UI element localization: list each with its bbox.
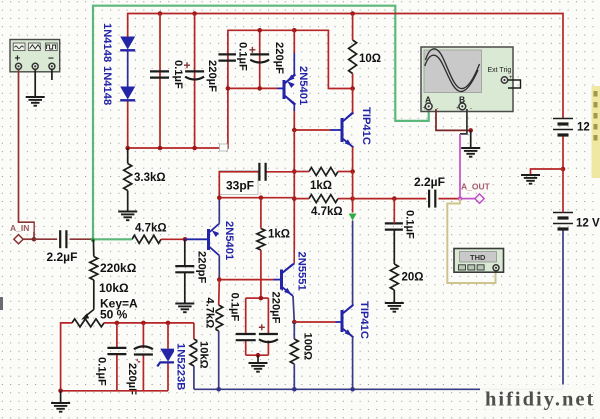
wire A_IN to cap xyxy=(34,238,57,240)
resistor 3.3kohm xyxy=(124,164,132,191)
svg-text:50 %: 50 % xyxy=(100,308,128,322)
THD terminal xyxy=(493,265,499,271)
resistor 4.7kohm (horiz) xyxy=(309,195,338,203)
svg-text:4.7kΩ: 4.7kΩ xyxy=(311,206,343,218)
label 12 (V1) xyxy=(576,120,590,132)
label 10kohm bottom xyxy=(198,339,210,372)
label 100ohm xyxy=(302,331,314,365)
wire 33pF net xyxy=(219,172,259,198)
label 1N5223B xyxy=(174,341,187,388)
svg-text:TIP41C: TIP41C xyxy=(360,107,372,145)
label 2.2uF input xyxy=(46,251,79,263)
junction scope ground xyxy=(468,128,473,133)
scope trace 1 xyxy=(426,49,480,89)
label TIP41C Q4 xyxy=(358,299,371,341)
wire node rail y148 xyxy=(128,88,228,148)
wire Q5 emitter to Q4 base xyxy=(294,321,335,323)
junction emitter drop xyxy=(292,28,297,33)
junction 0.1uF bottom xyxy=(158,146,163,151)
ground under 220pF xyxy=(175,303,194,305)
wire Q2 emitter up xyxy=(218,198,220,224)
label 220kohm xyxy=(99,261,140,274)
label 0.1uF bl xyxy=(95,355,108,384)
label 220pF xyxy=(196,249,208,289)
junction supply mid xyxy=(561,167,566,172)
junction cap box ground tap xyxy=(256,353,261,358)
battery V2 12V xyxy=(553,212,573,214)
wire output node down xyxy=(352,199,354,213)
label A_OUT xyxy=(461,182,489,191)
wire cap to green node xyxy=(70,238,94,240)
svg-text:1N5223B: 1N5223B xyxy=(175,343,187,390)
label 1N4148 (D1) xyxy=(101,21,114,62)
oscilloscope screen xyxy=(424,50,482,93)
wire Q3 emitter down xyxy=(352,147,354,172)
wire scope B down xyxy=(460,109,467,134)
junction diode chain xyxy=(125,146,130,151)
label 50 % xyxy=(99,310,129,321)
junction Q1 coll / Q3 base xyxy=(292,128,297,133)
junction caps bottom left xyxy=(226,86,231,91)
capacitor C 0.1uF top-left xyxy=(150,70,169,72)
wire Q2 collector down xyxy=(218,256,220,280)
polarity + of 220uF q1 xyxy=(249,49,255,51)
wire Q3 base wire xyxy=(294,129,330,131)
wire 10ohm leads xyxy=(352,14,354,41)
label 0.1uF q1 xyxy=(236,40,249,69)
junction 220uF bottom xyxy=(192,146,197,151)
wire base rail y88 xyxy=(228,87,277,89)
junction rail/4.7k xyxy=(216,387,221,392)
node A_IN diamond xyxy=(14,235,23,244)
label 4.7kohm bottom xyxy=(203,296,215,331)
junction Q2in base node xyxy=(183,237,188,242)
svg-text:hifidiy.net: hifidiy.net xyxy=(485,389,595,411)
wire A_IN stub xyxy=(22,238,34,240)
capacitor C 33pF xyxy=(258,163,260,181)
capacitor C 2.2uF output xyxy=(428,190,430,208)
wire emitter decoupling rail xyxy=(228,30,353,88)
svg-text:4.7kΩ: 4.7kΩ xyxy=(203,298,215,329)
XFG button sine xyxy=(13,43,25,51)
label 1kohm vert xyxy=(268,228,293,239)
junction col/4.7k xyxy=(292,196,297,201)
wire Q5 emitter down xyxy=(293,296,294,322)
wire bottom negative rail xyxy=(194,388,563,390)
junction Q2 coll node xyxy=(217,277,222,282)
junction col/1k xyxy=(292,169,297,174)
label 4.7kohm horiz xyxy=(310,206,345,217)
wire 220uF bm branch xyxy=(267,298,269,334)
junction rail/220uF xyxy=(192,11,197,16)
pot wiper arrow xyxy=(85,310,94,317)
wire green net top/left of schematic border xyxy=(93,6,429,240)
svg-text:2N5551: 2N5551 xyxy=(296,252,308,291)
wire Q3 collector up xyxy=(352,89,354,113)
net label box small xyxy=(220,144,228,151)
junction 10ohm bottom xyxy=(350,86,355,91)
svg-text:220pF: 220pF xyxy=(196,251,208,283)
svg-text:+: + xyxy=(509,75,513,81)
label 220uF bl xyxy=(126,361,138,398)
ground under 20ohm xyxy=(385,302,404,304)
junction zobel node xyxy=(392,196,397,201)
diode zener 1N5223B xyxy=(160,349,176,362)
svg-text:10Ω: 10Ω xyxy=(359,53,381,65)
XFG terminal - xyxy=(49,63,55,69)
watermark hifidiy.net xyxy=(480,385,593,410)
junction rail/100ohm xyxy=(292,387,297,392)
label 2N5401 Q1 xyxy=(297,64,310,111)
wire output node east xyxy=(353,198,427,200)
label 0.1uF xyxy=(172,58,185,87)
svg-text:0.1µF: 0.1µF xyxy=(172,60,184,89)
label 220uF bm xyxy=(270,290,282,330)
wire 4.7k bottom leads xyxy=(218,280,221,305)
label 10ohm xyxy=(358,51,382,64)
label 2N5401 Q2 xyxy=(223,219,236,266)
wire Q4 emitter down xyxy=(352,337,354,389)
scope terminal Ext xyxy=(501,77,507,83)
ground under scope xyxy=(461,147,480,149)
svg-text:+: + xyxy=(423,106,427,112)
diode D2 1N4148 xyxy=(120,87,135,100)
capacitor C 220uF bottom-mid electrolytic xyxy=(259,333,278,335)
svg-text:3.3kΩ: 3.3kΩ xyxy=(134,172,166,184)
wire 0.1uF bl branch xyxy=(116,323,118,348)
wire mid ground branch xyxy=(531,169,564,175)
label 2N5551 Q5 xyxy=(295,250,308,296)
junction rail/220uF bl xyxy=(141,321,146,326)
svg-text:2N5401: 2N5401 xyxy=(223,221,235,260)
wire XFG + to A_IN xyxy=(19,70,35,240)
label 12 V (V2) xyxy=(575,216,599,228)
svg-text:1N4148: 1N4148 xyxy=(101,66,113,105)
svg-text:4.7kΩ: 4.7kΩ xyxy=(135,223,167,235)
battery V1 12V xyxy=(553,118,573,120)
label 33pF xyxy=(219,171,258,195)
wire B to A_OUT magenta xyxy=(459,134,461,199)
svg-text:0.1µF: 0.1µF xyxy=(229,293,241,322)
junction bl rail left xyxy=(58,389,63,394)
instrument function generator XFG box xyxy=(10,40,60,72)
transistor Q3 TIP41C (NPN) top xyxy=(341,118,344,142)
wire 100ohm leads xyxy=(293,322,295,339)
diode D1 1N4148 xyxy=(120,37,135,50)
wire Q2 coll to Q5 base xyxy=(219,279,273,281)
instrument distortion analyzer THD box xyxy=(454,249,504,273)
wire cap out to A_OUT node xyxy=(438,198,460,200)
label 0.1uF zobel xyxy=(403,208,416,237)
wire +supply rail from diodes to battery xyxy=(128,14,563,119)
svg-text:2.2µF: 2.2µF xyxy=(47,250,78,264)
label 10kohm pot xyxy=(98,281,131,294)
svg-text:12 V: 12 V xyxy=(576,218,600,230)
XFG terminal common xyxy=(32,63,38,69)
resistor 1kohm vertical xyxy=(257,229,265,251)
ground bottom-mid xyxy=(249,362,268,364)
wire 1k vert leads xyxy=(260,198,262,229)
transistor Q4 TIP41C (NPN) bottom xyxy=(341,310,344,332)
resistor 1kohm (horiz) xyxy=(309,168,338,176)
junction rail/0.1uF bl xyxy=(115,321,120,326)
wire cap box feed xyxy=(246,297,261,299)
wire diode interconnect xyxy=(127,52,129,87)
junction rail/zener xyxy=(166,321,171,326)
capacitor C 220uF top-left electrolytic xyxy=(185,70,204,72)
wire 1k leads xyxy=(294,171,309,173)
wire A_OUT to THD (tan) xyxy=(447,199,495,283)
wire Q3 emitter to output xyxy=(352,172,354,199)
svg-text:220µF: 220µF xyxy=(270,292,282,324)
wire 220uF cap branch xyxy=(194,14,196,149)
svg-text:Ext Trig: Ext Trig xyxy=(488,67,512,74)
THD display xyxy=(460,252,497,263)
svg-text:2.2µF: 2.2µF xyxy=(414,175,445,189)
svg-text:1kΩ: 1kΩ xyxy=(310,180,332,192)
XFG button square xyxy=(45,43,57,51)
label TIP41C Q3 xyxy=(360,105,373,147)
polarity + of 220uF bl xyxy=(134,361,140,363)
resistor 220kohm xyxy=(90,257,98,281)
svg-text:TIP41C: TIP41C xyxy=(358,301,370,339)
wire scope A- to junction xyxy=(436,109,471,130)
svg-text:33pF: 33pF xyxy=(226,179,254,193)
junction green input node xyxy=(91,238,96,243)
junction rail/0.1uF xyxy=(158,11,163,16)
svg-text:-: - xyxy=(470,106,472,112)
wire output to Q4 collector xyxy=(352,221,354,307)
wire 220uF branch q1 xyxy=(259,30,261,88)
capacitor C 0.1uF bottom-left xyxy=(107,347,126,349)
capacitor C 220uF bottom-left electrolytic xyxy=(134,346,153,349)
junction caps bottom right xyxy=(257,86,262,91)
junction A_OUT node xyxy=(458,196,463,201)
svg-text:0.1µF: 0.1µF xyxy=(237,42,249,71)
transistor Q5 2N5551 (NPN) xyxy=(280,270,283,291)
THD buttons xyxy=(459,265,466,270)
scope ext trig pins xyxy=(508,80,521,88)
wire 4.7k leads xyxy=(294,198,309,200)
resistor 20ohm xyxy=(390,264,398,290)
svg-text:0.1µF: 0.1µF xyxy=(403,210,415,239)
svg-text:A_OUT: A_OUT xyxy=(461,182,491,192)
label A_IN xyxy=(10,223,34,232)
resistor 100ohm xyxy=(290,339,298,364)
svg-text:220kΩ: 220kΩ xyxy=(100,261,137,275)
scope terminal A xyxy=(425,103,432,110)
wire zener leads xyxy=(167,323,169,349)
wire XFG minus stub xyxy=(51,70,53,81)
label 4.7kohm input xyxy=(134,222,168,233)
capacitor C 220pF xyxy=(175,265,194,267)
svg-text:20Ω: 20Ω xyxy=(402,272,424,284)
resistor 10kohm bottom xyxy=(190,339,198,366)
svg-text:A_IN: A_IN xyxy=(10,223,29,233)
resistor 4.7kohm bottom xyxy=(215,305,223,331)
wire ground stem bm xyxy=(257,355,259,362)
junction rail/10ohm xyxy=(350,11,355,16)
probe arrow green xyxy=(349,214,357,221)
wire XFG common to ground xyxy=(34,70,36,97)
svg-text:12: 12 xyxy=(577,122,590,134)
transistor Q2 2N5401 (PNP) input xyxy=(207,229,210,250)
label 220uF q1 xyxy=(273,40,286,77)
resistor 10ohm xyxy=(349,40,357,74)
wire 20ohm to ground xyxy=(393,290,395,303)
resistor 4.7kohm input (horiz) xyxy=(132,235,161,243)
label 1N4148 (D2) xyxy=(101,64,114,105)
svg-text:10kΩ: 10kΩ xyxy=(198,341,210,369)
svg-text:100Ω: 100Ω xyxy=(302,333,314,361)
watermark yellow strip right edge xyxy=(592,86,600,178)
wire 4.7k input leads xyxy=(93,238,132,240)
XFG terminal + xyxy=(16,63,22,69)
watermark small mark left edge xyxy=(0,297,3,310)
svg-text:220µF: 220µF xyxy=(273,42,285,74)
junction rail/Q4 emitter xyxy=(350,387,355,392)
ground under 3.3k xyxy=(118,211,137,213)
label Key=A xyxy=(99,297,138,309)
junction 220uF top q1 xyxy=(257,28,262,33)
wire pot right rail xyxy=(104,322,194,324)
capacitor C 2.2uF input xyxy=(59,230,61,248)
wire ground stem bl xyxy=(60,391,62,403)
junction cap box top xyxy=(259,296,264,301)
label 1kohm horiz xyxy=(309,179,336,191)
junction 1k right xyxy=(350,169,355,174)
XFG button triangle xyxy=(28,43,40,51)
instrument oscilloscope XSC box xyxy=(421,47,513,112)
wire cap box bottom xyxy=(246,354,269,356)
potentiometer 10k body xyxy=(72,319,104,327)
junction A_IN xyxy=(32,237,37,242)
wire pot left down xyxy=(61,323,72,391)
wire V1 bottom xyxy=(562,137,564,170)
capacitor C 0.1uF (Q1 emitter) xyxy=(218,53,237,55)
wire main column xyxy=(293,130,295,264)
wire Q1 collector down xyxy=(293,105,295,112)
label 220uF xyxy=(206,58,219,95)
ground bottom-left xyxy=(51,402,70,404)
wire 220uF bl branch xyxy=(142,323,144,348)
wire 10k bottom leads xyxy=(193,323,195,339)
wire Q1 emitter up xyxy=(293,30,295,53)
label 20ohm xyxy=(401,271,426,283)
polarity + of 220uF bm xyxy=(259,326,265,328)
label 3.3kohm xyxy=(133,169,169,183)
svg-text:10kΩ: 10kΩ xyxy=(99,281,129,295)
node A_OUT diamond xyxy=(475,194,484,203)
svg-text:2N5401: 2N5401 xyxy=(297,66,309,105)
wire 0.1uF cap branch xyxy=(159,14,161,149)
capacitor C 0.1uF bottom-mid xyxy=(236,333,256,335)
ground mid right xyxy=(521,174,540,176)
svg-text:0.1µF: 0.1µF xyxy=(96,357,108,386)
svg-text:1kΩ: 1kΩ xyxy=(268,229,290,241)
polarity + of 220uF xyxy=(184,64,190,66)
svg-text:220µF: 220µF xyxy=(206,60,218,92)
scope trace 2 xyxy=(425,55,478,91)
wire V2 bottom to rail xyxy=(562,231,564,390)
capacitor C 0.1uF zobel xyxy=(385,222,404,224)
label 2.2uF output xyxy=(414,177,447,189)
ground under XFG xyxy=(26,96,45,98)
junction 33pF node xyxy=(217,195,222,200)
wire V2 top xyxy=(562,169,564,213)
wire 220pF leads xyxy=(184,239,186,266)
svg-text:THD: THD xyxy=(470,253,486,262)
transistor Q1 2N5401 (PNP) xyxy=(283,80,286,99)
junction 4.7k right / output node xyxy=(350,196,355,201)
wire 3.3k leads xyxy=(127,148,129,164)
capacitor C 220uF (Q1 emitter) electrolytic xyxy=(250,53,269,55)
wire 220k leads xyxy=(92,239,94,256)
junction 1k vert top xyxy=(259,195,264,200)
label 0.1uF bm xyxy=(228,291,241,320)
wire zobel leads xyxy=(393,199,395,224)
junction Q5 emitter node xyxy=(292,320,297,325)
wire vas base rail xyxy=(219,197,294,199)
svg-text:+: + xyxy=(456,106,460,112)
wire 0.1uF bm branch xyxy=(245,298,247,334)
svg-text:1N4148: 1N4148 xyxy=(101,23,113,62)
wire scope junction to ground xyxy=(470,130,472,147)
wire diode chain bottom xyxy=(127,102,129,149)
scope terminal B xyxy=(459,103,466,110)
wire bottom-left rail xyxy=(61,390,168,392)
wire A_OUT stub xyxy=(460,198,475,200)
